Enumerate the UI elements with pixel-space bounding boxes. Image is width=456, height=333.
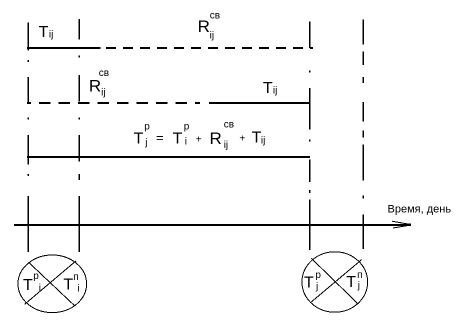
wire: late start bar (row 3) [27, 156, 310, 158]
label formula Tj^p = Ti^p + Rij^sv + Tij [134, 120, 266, 152]
svg-text:ij: ij [101, 88, 105, 99]
wire: activity duration bar Tij solid (row 1) [27, 47, 101, 49]
vertical dash-dot line: event i late time (x2) [78, 19, 80, 252]
label Tj^p (left sector of circle j) [304, 270, 321, 293]
svg-text:T: T [23, 277, 33, 294]
svg-text:p: p [33, 271, 39, 282]
axis arrowhead [392, 221, 411, 228]
label Ti^n (right sector of circle i) [63, 272, 79, 295]
svg-text:R: R [89, 77, 101, 96]
wire: activity duration bar Tij solid (row 2) [209, 102, 311, 104]
svg-text:p: p [144, 122, 150, 133]
label Ti^p (left sector of circle i) [23, 271, 41, 294]
svg-text:i: i [77, 284, 79, 295]
label Rij^sv (row 2) [89, 68, 109, 99]
svg-text:j: j [315, 282, 318, 293]
svg-text:j: j [144, 138, 147, 149]
vertical dash-dot line: event j late time (x4) [362, 20, 364, 249]
svg-text:R: R [210, 129, 222, 148]
time axis [14, 224, 411, 226]
svg-text:ij: ij [273, 86, 277, 97]
svg-text:T: T [134, 130, 144, 147]
cross diagonals in event circle j [310, 258, 362, 304]
svg-text:p: p [184, 122, 190, 133]
svg-text:T: T [173, 130, 183, 147]
svg-text:Время, день: Время, день [388, 204, 452, 216]
svg-text:=: = [156, 130, 164, 145]
label Rij^sv (row 1) [198, 11, 221, 42]
svg-text:п: п [73, 272, 78, 283]
svg-text:T: T [39, 24, 49, 41]
svg-text:ij: ij [224, 140, 228, 151]
svg-text:+: + [239, 133, 245, 144]
svg-text:T: T [346, 274, 356, 291]
svg-text:j: j [357, 281, 360, 292]
cross diagonals in event circle i [25, 261, 77, 306]
svg-text:св: св [99, 68, 109, 79]
wire: free float Rij dashed segment (row 1) [106, 47, 313, 49]
svg-text:ij: ij [261, 135, 265, 146]
label Tij (row 1) [39, 24, 54, 41]
label Tj^n (right sector of circle j) [346, 270, 362, 291]
svg-text:св: св [210, 11, 220, 22]
label Tij (row 2) [263, 80, 277, 97]
svg-text:i: i [185, 137, 187, 148]
event circle i [18, 255, 87, 313]
svg-text:p: p [315, 270, 321, 281]
wire: free float Rij dashed segment (row 2) [27, 102, 200, 104]
svg-text:T: T [304, 275, 314, 292]
svg-text:ij: ij [210, 31, 214, 42]
svg-text:св: св [224, 120, 234, 131]
svg-text:T: T [263, 80, 273, 97]
vertical dash-dot line: event j early time (x3) [309, 22, 311, 250]
svg-text:+: + [196, 134, 202, 145]
svg-text:R: R [198, 17, 210, 36]
svg-text:T: T [63, 277, 73, 294]
svg-text:i: i [39, 283, 41, 294]
event circle j [302, 252, 368, 312]
vertical dash-dot line: event i early time (x1) [27, 23, 29, 252]
svg-text:ij: ij [49, 29, 53, 40]
